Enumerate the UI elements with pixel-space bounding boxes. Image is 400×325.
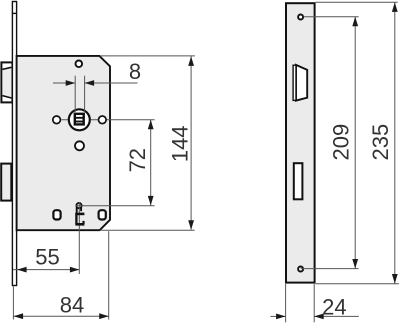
faceplate strip (edge view)	[12, 2, 16, 286]
svg-text:144: 144	[167, 125, 192, 162]
bottom screw hole	[298, 267, 303, 272]
dimension 55: line and arrows	[13, 269, 79, 271]
follower square 8mm	[75, 114, 84, 125]
svg-text:24: 24	[322, 294, 346, 319]
latch bolt front: face plate edge	[293, 65, 296, 100]
extension line bottom screw	[301, 268, 359, 270]
top hole	[76, 61, 83, 68]
dimension 8: extension lines	[74, 76, 76, 113]
dimension 24: line and arrows	[270, 315, 285, 317]
dimension 84: line and arrows	[13, 315, 108, 317]
svg-text:209: 209	[329, 124, 354, 161]
bottom hole	[75, 141, 84, 150]
left oval hole	[53, 210, 60, 219]
dimension 8: lines and arrows	[53, 82, 75, 84]
latch bolt front: bevel face	[296, 65, 307, 101]
svg-text:72: 72	[125, 148, 150, 172]
dimension 235: line and arrows	[394, 2, 396, 283]
follower circle	[69, 109, 90, 130]
keyhole centre line vertical	[78, 202, 80, 274]
right small hole	[99, 116, 107, 124]
dimension 84: extension lines	[12, 287, 14, 320]
keyhole circle	[76, 203, 81, 208]
dimension 144: extension lines	[100, 55, 195, 57]
right oval hole	[99, 210, 106, 219]
dimension 24: extension lines	[285, 284, 287, 322]
svg-text:235: 235	[368, 124, 393, 161]
keyhole centre line horizontal	[76, 205, 155, 207]
keyhole profile	[75, 208, 84, 225]
svg-text:55: 55	[35, 244, 59, 269]
svg-text:84: 84	[60, 292, 84, 317]
extension line top edge	[316, 1, 398, 3]
deadbolt (edge view)	[1, 164, 11, 201]
extension line bottom edge	[316, 283, 399, 285]
dimension 72: line and arrows	[150, 120, 152, 206]
latch bolt (edge view)	[1, 62, 12, 102]
extension line top screw	[304, 16, 359, 18]
dimension 144: line and arrows	[190, 56, 192, 229]
top screw hole	[298, 15, 303, 20]
spindle centre line horizontal	[61, 119, 154, 121]
faceplate front	[286, 3, 315, 282]
svg-text:8: 8	[129, 59, 141, 84]
dimension 209: line and arrows	[354, 17, 356, 269]
lock case body	[17, 56, 110, 230]
deadbolt cutout front	[294, 163, 303, 199]
left small hole	[53, 116, 61, 124]
